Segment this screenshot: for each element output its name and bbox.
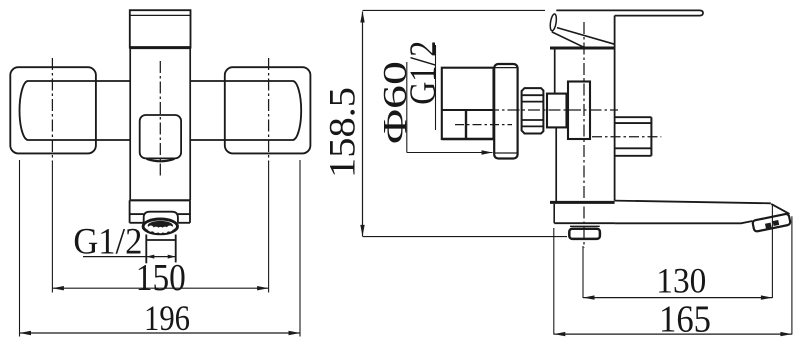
- svg-text:G1/2: G1/2: [73, 221, 142, 262]
- extension line 158.5 bottom: [363, 236, 568, 238]
- spout outlet cylinder G1/2: [146, 235, 175, 264]
- lever handle (side): [549, 10, 703, 47]
- axis: fitting horizontal: [592, 136, 661, 138]
- dimension 158.5 line: [360, 11, 364, 236]
- flange disc: [568, 82, 590, 140]
- extension line 196 left: [19, 160, 21, 337]
- svg-text:130: 130: [656, 260, 706, 300]
- dimension 150: [52, 286, 268, 290]
- axis: wall pipe horizontal: [455, 124, 512, 126]
- cover plate (phi60): [494, 64, 517, 159]
- right wall escutcheon (rounded block): [225, 67, 311, 153]
- aerator face scallops: [148, 221, 173, 233]
- phi60 leader: [407, 62, 493, 155]
- left inlet pipe: [20, 81, 131, 140]
- threaded nipple: [522, 88, 544, 133]
- body back edge / lever neck: [614, 16, 616, 201]
- extension line 130 left: [582, 246, 584, 298]
- handle front plate (rounded square): [140, 115, 181, 158]
- axis: union horizontal: [487, 109, 618, 111]
- handle lower lip: [147, 159, 175, 162]
- dimension 196: [20, 331, 301, 335]
- wall escutcheon block (side): [442, 68, 494, 139]
- check valve fitting (right side): [615, 117, 652, 156]
- bottom cap (side): [550, 202, 615, 223]
- aerator ring (thick ellipse): [143, 219, 177, 234]
- centerline body vertical: [159, 61, 161, 178]
- dimension 165: [554, 332, 792, 336]
- body rear profile lower: [555, 127, 557, 202]
- svg-text:150: 150: [136, 257, 186, 299]
- left wall escutcheon (rounded block): [10, 67, 96, 153]
- union nut cylinder: [547, 94, 567, 128]
- axis: body vertical: [583, 22, 585, 248]
- G1/2 dimension line (left view): [83, 255, 176, 259]
- dimension 130: [583, 295, 772, 299]
- top cap (side): [550, 47, 615, 50]
- G1/2 leader (right view): [435, 45, 437, 130]
- svg-text:165: 165: [659, 298, 711, 340]
- cap top block of body: [130, 10, 191, 47]
- spout (side): [615, 201, 790, 224]
- extension line 150 right: [268, 162, 270, 293]
- body rear profile upper: [554, 48, 556, 94]
- body side walls: [130, 48, 190, 201]
- extension line 196 right: [299, 160, 301, 337]
- body base flange lines: [130, 200, 190, 223]
- aerator dome cap: [144, 212, 178, 223]
- svg-text:G1/2: G1/2: [403, 41, 444, 105]
- centerline right arm: [268, 58, 270, 162]
- extension line 158.5 top: [363, 9, 546, 11]
- extension line 150 left: [51, 162, 53, 293]
- extension line 165 right: [791, 216, 793, 334]
- right inlet pipe: [190, 81, 301, 140]
- svg-text:196: 196: [144, 298, 190, 338]
- svg-text:158.5: 158.5: [323, 87, 364, 178]
- extension line 165 left: [553, 228, 555, 335]
- spout tip cap: [752, 213, 791, 231]
- wall stub (bottom rear): [569, 226, 600, 239]
- centerline left arm: [51, 58, 53, 162]
- extension line 130 right: [771, 205, 773, 298]
